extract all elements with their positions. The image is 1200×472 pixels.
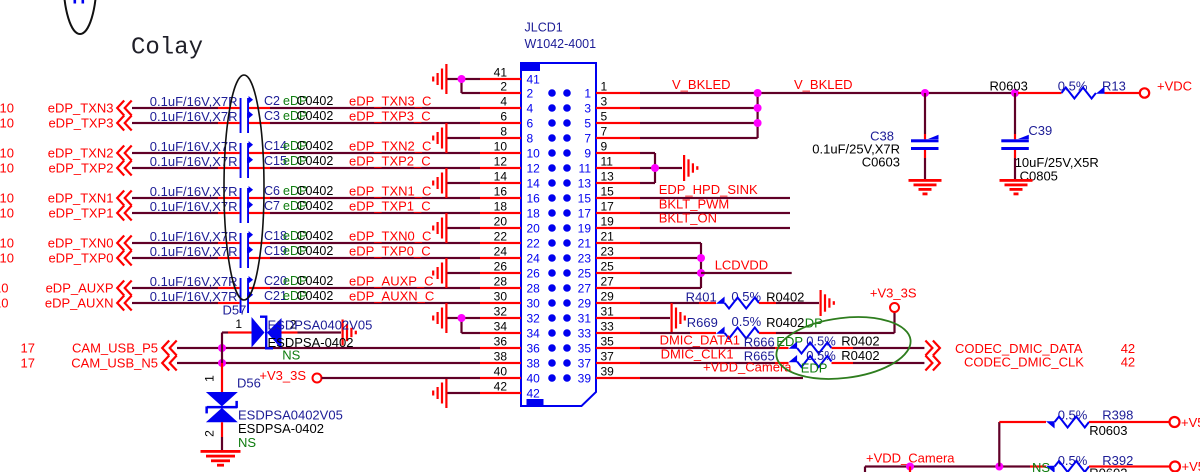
TVS diode D56 [205, 392, 238, 422]
svg-text:6: 6 [527, 116, 534, 130]
input port chevron eDP_TXP0 [117, 251, 132, 266]
svg-text:6: 6 [500, 110, 507, 124]
wire pin13 jog [640, 182, 655, 184]
JLCD1 pin 3 stub [596, 107, 640, 109]
svg-text:35: 35 [578, 341, 592, 355]
wire capacitor C15 to JLCD1 [249, 167, 270, 169]
svg-text:eDP_TXP0_C: eDP_TXP0_C [349, 244, 431, 259]
resistor R401 [716, 297, 759, 309]
wire pin35 to R666 [640, 347, 775, 349]
svg-text:37: 37 [601, 350, 615, 364]
svg-text:10: 10 [0, 281, 9, 296]
svg-text:22: 22 [527, 236, 541, 250]
svg-text:12: 12 [527, 161, 541, 175]
wire D57 to ground [282, 331, 298, 333]
JLCD1 pin 40 stub [480, 377, 521, 379]
capacitor C14 [240, 141, 253, 163]
ground at D57 [342, 320, 357, 346]
wire junction drop [909, 467, 911, 472]
wire LCDVDD out [701, 272, 792, 274]
svg-text:R666: R666 [744, 335, 775, 350]
input port chevron eDP_AUXP [117, 281, 132, 296]
ground at pin31 [671, 303, 686, 333]
svg-text:C39: C39 [1028, 123, 1052, 138]
wire V_BKLED vertical tie [757, 93, 759, 138]
svg-text:19: 19 [601, 215, 615, 229]
svg-text:C0402: C0402 [297, 229, 334, 243]
input port chevron eDP_TXN0 [117, 236, 132, 251]
svg-text:31: 31 [601, 305, 615, 319]
svg-text:C0402: C0402 [297, 154, 334, 168]
svg-text:CAM_USB_N5: CAM_USB_N5 [71, 356, 158, 371]
svg-text:eDP_TXP3_C: eDP_TXP3_C [349, 109, 431, 124]
svg-text:21: 21 [578, 236, 592, 250]
JLCD1 pin 27 stub [596, 287, 640, 289]
svg-text:0.5%: 0.5% [732, 314, 762, 329]
svg-text:27: 27 [601, 275, 615, 289]
wire pin33 to R669 [640, 332, 690, 334]
wire R398 to +V5S [1089, 421, 1170, 423]
wire eDP_TXN2 to capacitor C14 [132, 152, 218, 154]
svg-text:15: 15 [601, 185, 615, 199]
connector bottom-left tab [527, 399, 544, 406]
svg-text:+V3_3S: +V3_3S [259, 368, 306, 383]
svg-text:C0402: C0402 [297, 244, 334, 258]
wire V_BKLED down to C38 [924, 93, 926, 134]
svg-text:BKLT_ON: BKLT_ON [659, 211, 717, 226]
svg-text:26: 26 [494, 260, 508, 274]
svg-text:29: 29 [601, 290, 615, 304]
svg-text:20: 20 [527, 221, 541, 235]
wire pin5 to V_BKLED [640, 122, 758, 124]
capacitor C20 [240, 276, 253, 298]
svg-text:C6: C6 [264, 184, 280, 198]
svg-text:NS: NS [238, 435, 256, 450]
svg-text:10: 10 [0, 206, 14, 221]
JLCD1 pin 8 stub [480, 137, 521, 139]
svg-text:Colay: Colay [131, 35, 203, 62]
svg-text:+VDC: +VDC [1157, 79, 1192, 94]
JLCD1 pin 30 stub [480, 302, 521, 304]
svg-text:2: 2 [500, 80, 507, 94]
JLCD1 pin 24 stub [480, 257, 521, 259]
svg-text:eDP_TXP1_C: eDP_TXP1_C [349, 199, 431, 214]
svg-text:C0402: C0402 [297, 139, 334, 153]
svg-text:5: 5 [584, 116, 591, 130]
JLCD1 pin 2 stub [480, 92, 521, 94]
input port chevron CAM_USB_N5 [162, 356, 177, 371]
wire ground to pin 8 [448, 137, 481, 139]
svg-text:1: 1 [235, 317, 242, 331]
wire CAM_USB_P5 to JLCD1 [177, 347, 480, 349]
svg-text:V_BKLED: V_BKLED [672, 77, 731, 92]
svg-text:eDP_TXP2: eDP_TXP2 [48, 161, 113, 176]
JLCD1 pin 33 stub [596, 332, 640, 334]
JLCD1 pin 15 stub [596, 197, 640, 199]
JLCD1 pin 11 stub [596, 167, 640, 169]
svg-text:10: 10 [0, 191, 14, 206]
hierarchy ellipse (top-left, clipped) [64, 0, 97, 34]
svg-text:+V5S: +V5S [1182, 459, 1200, 472]
svg-text:14: 14 [494, 170, 508, 184]
svg-text:C0402: C0402 [297, 199, 334, 213]
resistor R665 [789, 355, 832, 367]
svg-text:V_BKLED: V_BKLED [794, 77, 853, 92]
wire pin31 to ground [640, 317, 670, 319]
wire pin25 [640, 272, 701, 274]
JLCD1 pin 35 stub [596, 347, 640, 349]
wire eDP_TXN3 to capacitor C2 [132, 107, 218, 109]
wire C39 to ground [1014, 150, 1016, 158]
junction node V_BKLED pin3 [754, 104, 762, 112]
wire R13 to +VDC [1105, 92, 1141, 94]
JLCD1 pin 4 stub [480, 107, 521, 109]
wire R665 to CODEC_DMIC_CLK [832, 362, 854, 364]
svg-text:ESDPSA0402V05: ESDPSA0402V05 [268, 318, 373, 333]
svg-text:0.1uF/16V,X7R: 0.1uF/16V,X7R [150, 244, 238, 259]
svg-text:38: 38 [527, 356, 541, 370]
svg-text:0.1uF/16V,X7R: 0.1uF/16V,X7R [150, 274, 238, 289]
svg-text:LCDVDD: LCDVDD [715, 257, 768, 272]
JLCD1 pin 16 stub [480, 197, 521, 199]
svg-text:0.1uF/16V,X7R: 0.1uF/16V,X7R [150, 229, 238, 244]
svg-text:33: 33 [601, 320, 615, 334]
svg-text:ESDPSA-0402: ESDPSA-0402 [238, 421, 324, 436]
resistor R398 [1046, 417, 1089, 429]
svg-text:eDP_TXN1: eDP_TXN1 [48, 191, 114, 206]
wire pin1 V_BKLED [640, 92, 758, 94]
resistor R392 [1046, 461, 1089, 472]
wire pin27 jog [640, 287, 701, 289]
svg-text:C3: C3 [264, 109, 280, 123]
svg-text:8: 8 [527, 131, 534, 145]
annotation ellipse around capacitor column [224, 75, 264, 300]
svg-text:C7: C7 [264, 199, 280, 213]
svg-text:8: 8 [500, 125, 507, 139]
svg-text:7: 7 [584, 131, 591, 145]
svg-text:eDP_AUXP: eDP_AUXP [46, 281, 114, 296]
JLCD1 pin 34 stub [480, 332, 521, 334]
JLCD1 pin 13 stub [596, 182, 640, 184]
JLCD1 pin 26 stub [480, 272, 521, 274]
svg-text:38: 38 [494, 350, 508, 364]
capacitor C2 [240, 96, 253, 118]
svg-text:eDP_TXN1_C: eDP_TXN1_C [349, 184, 431, 199]
input port chevron eDP_AUXN [117, 296, 132, 311]
svg-text:1: 1 [584, 86, 591, 100]
wire pin7 to V_BKLED [640, 137, 758, 139]
wire junction down to pin 2 [460, 79, 462, 93]
capacitor C6 [240, 186, 253, 208]
svg-text:R13: R13 [1102, 79, 1126, 94]
input port chevron eDP_TXP2 [117, 161, 132, 176]
wire junction down to pin 34 [460, 318, 462, 333]
wire eDP_TXN1 to capacitor C6 [132, 197, 218, 199]
input port chevron eDP_TXP1 [117, 206, 132, 221]
svg-text:10: 10 [0, 236, 14, 251]
svg-text:2: 2 [527, 86, 534, 100]
svg-text:10: 10 [0, 101, 14, 116]
wire pin21 jog [640, 242, 701, 244]
svg-text:4: 4 [500, 95, 507, 109]
ground at JLCD1 pin 8 [432, 123, 447, 153]
output port chevron CODEC_DMIC_DATA [925, 341, 940, 356]
junction node R398 tie [995, 463, 1003, 471]
svg-text:eDP_TXN0_C: eDP_TXN0_C [349, 229, 431, 244]
wire eDP_AUXP to capacitor C20 [132, 287, 218, 289]
input port chevron CAM_USB_P5 [162, 341, 177, 356]
svg-text:18: 18 [527, 206, 541, 220]
wire eDP_TXP3 to capacitor C3 [132, 122, 218, 124]
connector pin dots [548, 89, 571, 382]
wire pin23 [640, 257, 701, 259]
svg-text:eDP_TXP3: eDP_TXP3 [48, 116, 113, 131]
svg-text:BKLT_PWM: BKLT_PWM [659, 196, 730, 211]
wire pin9 jog [640, 152, 655, 154]
wire capacitor C21 to JLCD1 [249, 302, 270, 304]
svg-text:16: 16 [494, 185, 508, 199]
wire ground to pin 20 [448, 227, 481, 229]
wire capacitor C7 to JLCD1 [249, 212, 270, 214]
svg-text:34: 34 [527, 326, 541, 340]
JLCD1 pin 25 stub [596, 272, 640, 274]
JLCD1 pin 10 stub [480, 152, 521, 154]
svg-text:C0603: C0603 [862, 155, 900, 170]
JLCD1 pin 5 stub [596, 122, 640, 124]
svg-text:10: 10 [527, 146, 541, 160]
capacitor C3 [240, 111, 253, 133]
svg-text:28: 28 [494, 275, 508, 289]
ground at D56 [201, 450, 241, 467]
wire corner to R398 [999, 421, 1046, 423]
JLCD1 pin 20 stub [480, 227, 521, 229]
svg-text:0.1uF/16V,X7R: 0.1uF/16V,X7R [150, 94, 238, 109]
svg-text:39: 39 [578, 371, 592, 385]
JLCD1 pin 9 stub [596, 152, 640, 154]
wire ground to pin 26 [448, 272, 481, 274]
svg-text:34: 34 [494, 320, 508, 334]
svg-text:30: 30 [527, 296, 541, 310]
wire C38 to ground [924, 150, 926, 158]
ground at JLCD1 pin 42 [432, 378, 447, 408]
wire R401 to ground [759, 302, 776, 304]
svg-text:NS: NS [282, 348, 300, 363]
junction node CAM_USB_P5 / D57 [218, 344, 226, 352]
wire pin29 to R401 [640, 302, 699, 304]
svg-text:C0402: C0402 [297, 274, 334, 288]
svg-text:4: 4 [527, 101, 534, 115]
JLCD1 pin 12 stub [480, 167, 521, 169]
svg-text:33: 33 [578, 326, 592, 340]
svg-text:41: 41 [494, 66, 508, 80]
svg-text:EDP_HPD_SINK: EDP_HPD_SINK [659, 182, 758, 197]
junction node pin32/pin34 [458, 314, 466, 322]
wire D57 branch vertical [221, 333, 223, 364]
wire pin19 BKLT_ON [640, 227, 790, 229]
JLCD1 pin 31 stub [596, 317, 640, 319]
connector JLCD1 body [521, 63, 596, 406]
svg-text:10: 10 [0, 161, 14, 176]
wire eDP_TXP2 to capacitor C15 [132, 167, 218, 169]
svg-text:36: 36 [527, 341, 541, 355]
svg-text:CAM_USB_P5: CAM_USB_P5 [72, 341, 158, 356]
JLCD1 pin 6 stub [480, 122, 521, 124]
svg-text:R401: R401 [686, 290, 717, 305]
svg-text:+V5S: +V5S [1181, 415, 1200, 430]
svg-text:25: 25 [601, 260, 615, 274]
wire ground to pin 42 [448, 392, 481, 394]
svg-text:30: 30 [494, 290, 508, 304]
svg-text:R0603: R0603 [990, 79, 1028, 94]
JLCD1 pin 17 stub [596, 212, 640, 214]
svg-text:eDP_TXP1: eDP_TXP1 [48, 206, 113, 221]
wire V_BKLED main run [758, 92, 1018, 94]
svg-text:ESDPSA-0402: ESDPSA-0402 [268, 335, 354, 350]
svg-text:26: 26 [527, 266, 541, 280]
svg-text:29: 29 [578, 296, 592, 310]
ground at JLCD1 pin 41 [432, 64, 447, 94]
ground at pins 9-13 [683, 155, 698, 181]
wire to R392 [1030, 465, 1046, 467]
wire CAM_USB_N5 to JLCD1 [177, 362, 480, 364]
wire capacitor C19 to JLCD1 [249, 257, 270, 259]
svg-text:15: 15 [578, 191, 592, 205]
wire ground to pin 32 [448, 317, 481, 319]
svg-text:D57: D57 [223, 303, 247, 318]
wire D57 branch horizontal [222, 331, 228, 333]
svg-text:C0402: C0402 [297, 94, 334, 108]
wire CAM_USB_N5 to D56 [221, 363, 223, 392]
svg-text:R398: R398 [1102, 407, 1133, 422]
JLCD1 pin 36 stub [480, 347, 521, 349]
wire eDP_TXP1 to capacitor C7 [132, 212, 218, 214]
svg-text:32: 32 [527, 311, 541, 325]
capacitor C38 [911, 135, 939, 150]
svg-text:22: 22 [494, 230, 508, 244]
junction node +VDD_Camera drop [906, 463, 914, 471]
svg-text:10: 10 [0, 251, 14, 266]
junction node LCDVDD pin23 [697, 254, 705, 262]
svg-text:5: 5 [601, 110, 608, 124]
input port chevron eDP_TXN2 [117, 146, 132, 161]
svg-text:10: 10 [0, 146, 14, 161]
svg-text:C2: C2 [264, 94, 280, 108]
svg-text:1: 1 [601, 80, 608, 94]
power terminal +V5S (lower) [1170, 462, 1180, 472]
svg-text:R0402: R0402 [841, 334, 879, 349]
svg-text:eDP_TXN3_C: eDP_TXN3_C [349, 94, 431, 109]
svg-text:D56: D56 [237, 376, 261, 391]
JLCD1 pin 38 stub [480, 362, 521, 364]
svg-text:31: 31 [578, 311, 592, 325]
wire R669 to +V3_3S [759, 332, 776, 334]
wire pin39 +VDD_Camera [640, 377, 803, 379]
svg-text:3: 3 [601, 95, 608, 109]
JLCD1 pin 22 stub [480, 242, 521, 244]
svg-text:17: 17 [578, 206, 592, 220]
wire R392 to +V5S [1089, 465, 1170, 467]
JLCD1 pin 19 stub [596, 227, 640, 229]
power terminal +V3_3S (right) [890, 303, 899, 312]
wire pin37 to R665 [640, 362, 775, 364]
input port chevron eDP_TXN1 [117, 191, 132, 206]
junction node CAM_USB_N5 / D56 [218, 359, 226, 367]
wire up to R398 [998, 422, 1000, 467]
JLCD1 pin 42 stub [480, 392, 521, 394]
resistor R669 [716, 327, 759, 339]
capacitor C7 [240, 201, 253, 223]
svg-text:JLCD1: JLCD1 [525, 21, 563, 35]
svg-text:17: 17 [601, 200, 615, 214]
svg-text:35: 35 [601, 335, 615, 349]
svg-text:2: 2 [203, 430, 217, 437]
svg-text:eDP_TXN2: eDP_TXN2 [48, 146, 114, 161]
connector top-left tab [521, 63, 540, 71]
svg-text:40: 40 [527, 371, 541, 385]
svg-text:W1042-4001: W1042-4001 [525, 37, 597, 51]
wire pin11 to ground [640, 167, 682, 169]
capacitor C39 [1001, 135, 1029, 150]
svg-text:C0402: C0402 [297, 109, 334, 123]
blue H glyph fragment [74, 0, 85, 4]
svg-text:39: 39 [601, 365, 615, 379]
JLCD1 pin 39 stub [596, 377, 640, 379]
svg-text:1: 1 [203, 375, 217, 382]
svg-text:13: 13 [578, 176, 592, 190]
ground at JLCD1 pin 14 [432, 168, 447, 198]
junction node LCDVDD pin25 [697, 269, 705, 277]
wire pin3 to V_BKLED [640, 107, 758, 109]
svg-text:10: 10 [0, 296, 9, 311]
JLCD1 pin 18 stub [480, 212, 521, 214]
wire D56 to ground [221, 422, 223, 437]
ground at C38 [909, 179, 942, 195]
svg-text:C0402: C0402 [297, 289, 334, 303]
svg-text:EDP: EDP [801, 361, 828, 376]
svg-text:R669: R669 [687, 315, 718, 330]
JLCD1 pin 28 stub [480, 287, 521, 289]
svg-text:3: 3 [584, 101, 591, 115]
wire eDP_TXN0 to capacitor C18 [132, 242, 218, 244]
svg-text:17: 17 [21, 356, 35, 371]
svg-text:9: 9 [584, 146, 591, 160]
svg-text:7: 7 [601, 125, 608, 139]
svg-text:25: 25 [578, 266, 592, 280]
junction node C39 [1011, 89, 1019, 97]
svg-text:10: 10 [0, 116, 14, 131]
svg-text:42: 42 [1121, 354, 1135, 369]
svg-text:R0603: R0603 [1089, 423, 1127, 438]
junction node V_BKLED pin5 [754, 119, 762, 127]
svg-text:eDP_TXP2_C: eDP_TXP2_C [349, 154, 431, 169]
capacitor C21 [240, 291, 253, 313]
svg-text:19: 19 [578, 221, 592, 235]
wire V_BKLED down to C39 [1014, 93, 1016, 134]
svg-text:42: 42 [494, 380, 508, 394]
TVS diode D57 [252, 316, 282, 350]
svg-text:R0402: R0402 [841, 348, 879, 363]
svg-text:eDP_TXN2_C: eDP_TXN2_C [349, 139, 431, 154]
wire capacitor C14 to JLCD1 [249, 152, 270, 154]
wire R666 to CODEC_DMIC_DATA [832, 347, 854, 349]
svg-text:eDP_AUXN_C: eDP_AUXN_C [349, 289, 434, 304]
wire eDP_AUXN to capacitor C21 [132, 302, 218, 304]
power terminal +VDC [1140, 88, 1149, 97]
input port chevron eDP_TXP3 [117, 116, 132, 131]
svg-text:eDP_AUXP_C: eDP_AUXP_C [349, 274, 434, 289]
capacitor C15 [240, 156, 253, 178]
wire pin15 EDP_HPD_SINK [640, 197, 790, 199]
